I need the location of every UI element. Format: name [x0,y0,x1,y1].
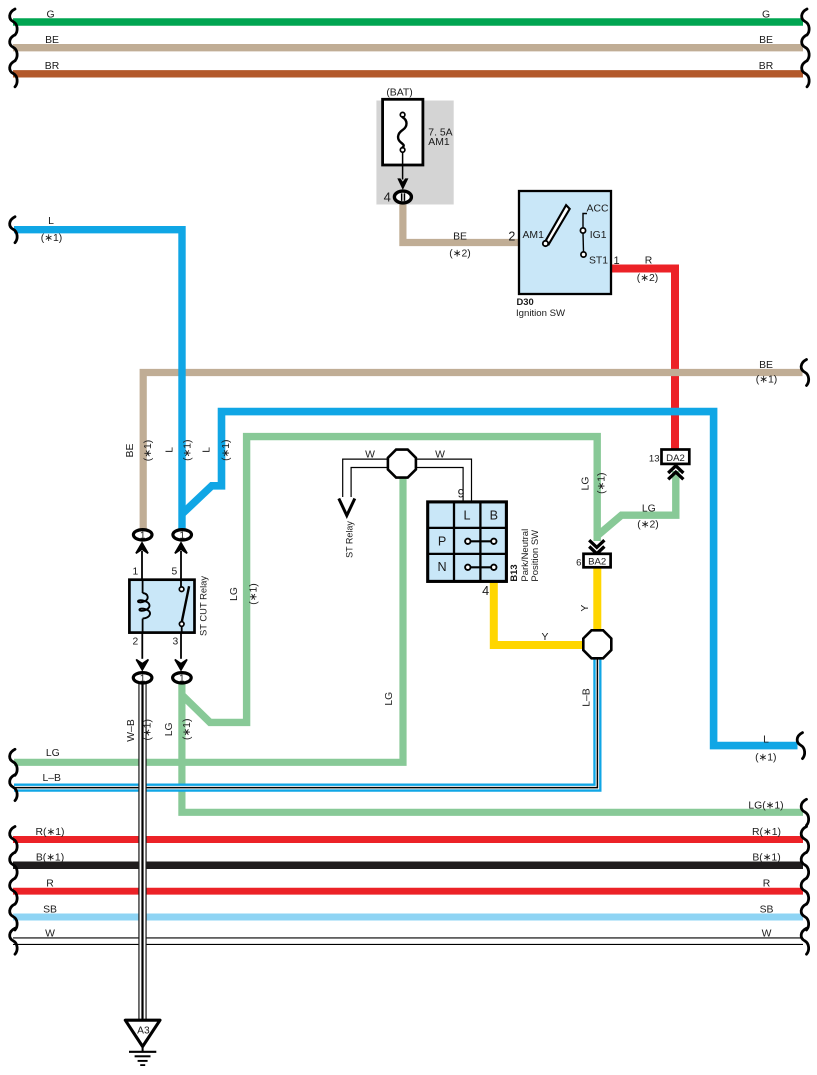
svg-text:L–B: L–B [42,773,61,784]
svg-text:BR: BR [759,61,774,72]
svg-text:(∗1): (∗1) [221,439,232,460]
svg-text:4: 4 [384,190,391,205]
svg-text:(∗1): (∗1) [143,719,154,740]
svg-text:BE: BE [759,360,773,371]
svg-text:LG: LG [384,692,395,706]
svg-text:Position SW: Position SW [530,530,541,582]
svg-text:2: 2 [508,230,515,244]
svg-text:BE: BE [453,232,467,243]
svg-text:W: W [45,929,55,940]
svg-text:LG: LG [581,477,592,491]
svg-text:L: L [763,735,769,746]
svg-text:ST1: ST1 [589,256,608,267]
svg-text:(∗1): (∗1) [41,233,62,244]
svg-text:(∗1): (∗1) [756,375,777,386]
svg-text:13: 13 [649,453,660,464]
svg-text:B: B [490,508,498,522]
svg-text:L: L [48,216,54,227]
svg-text:9: 9 [458,486,465,500]
svg-text:Y: Y [542,632,549,643]
svg-text:1: 1 [140,530,145,541]
svg-text:(∗1): (∗1) [755,753,776,764]
svg-text:W: W [762,929,772,940]
svg-text:W: W [435,450,445,461]
svg-text:L–B: L–B [582,688,593,707]
svg-text:R: R [645,256,653,267]
svg-text:4: 4 [482,584,489,598]
svg-text:AM1: AM1 [523,230,545,241]
svg-text:G: G [46,9,54,20]
svg-text:G: G [762,9,770,20]
svg-text:1: 1 [613,255,619,267]
svg-text:SB: SB [760,904,774,915]
svg-text:LG: LG [46,748,60,759]
svg-text:B13: B13 [508,564,519,581]
svg-text:1: 1 [179,530,184,541]
svg-text:BE: BE [125,444,136,458]
svg-text:1: 1 [179,673,184,684]
svg-text:(∗2): (∗2) [449,249,470,260]
svg-text:L: L [164,447,175,453]
svg-text:B(∗1): B(∗1) [36,853,64,864]
svg-text:IG1: IG1 [590,230,607,241]
svg-text:(∗1): (∗1) [143,440,154,461]
svg-text:R(∗1): R(∗1) [752,827,781,838]
svg-text:SB: SB [43,904,57,915]
svg-text:(∗2): (∗2) [637,273,658,284]
svg-text:1: 1 [140,673,145,684]
svg-text:W–B: W–B [126,719,137,742]
svg-text:N: N [438,560,447,574]
svg-text:L: L [201,447,212,453]
svg-text:2: 2 [133,637,139,648]
svg-text:L: L [463,508,470,522]
svg-text:(∗1): (∗1) [182,719,193,740]
svg-text:(∗1): (∗1) [249,583,260,604]
svg-text:(BAT): (BAT) [386,88,412,99]
svg-text:BE: BE [45,35,59,46]
svg-text:ST Relay: ST Relay [345,521,355,558]
svg-text:R: R [46,879,54,890]
svg-text:Y: Y [580,605,591,612]
svg-text:LG(∗1): LG(∗1) [748,801,783,812]
svg-text:LG: LG [229,587,240,601]
svg-text:Ignition SW: Ignition SW [516,308,566,319]
svg-text:W: W [365,450,375,461]
svg-text:(∗1): (∗1) [183,439,194,460]
svg-text:6: 6 [576,557,581,568]
svg-text:(∗1): (∗1) [597,472,608,493]
svg-text:(∗2): (∗2) [637,519,658,530]
svg-text:P: P [438,534,446,548]
svg-text:LG: LG [164,722,175,736]
svg-text:BR: BR [45,61,60,72]
svg-text:B(∗1): B(∗1) [752,853,780,864]
svg-text:A3: A3 [137,1025,150,1036]
svg-text:AM1: AM1 [428,137,450,148]
svg-text:DA2: DA2 [666,453,685,464]
svg-text:5: 5 [172,567,178,578]
svg-text:BE: BE [759,35,773,46]
svg-text:R: R [763,879,771,890]
svg-text:BA2: BA2 [588,557,606,568]
svg-text:D30: D30 [517,296,534,307]
svg-text:1: 1 [133,567,139,578]
svg-text:ST CUT Relay: ST CUT Relay [198,576,209,636]
svg-text:R(∗1): R(∗1) [36,827,65,838]
svg-text:ACC: ACC [587,204,609,215]
svg-text:LG: LG [642,503,656,514]
svg-text:3: 3 [173,637,179,648]
